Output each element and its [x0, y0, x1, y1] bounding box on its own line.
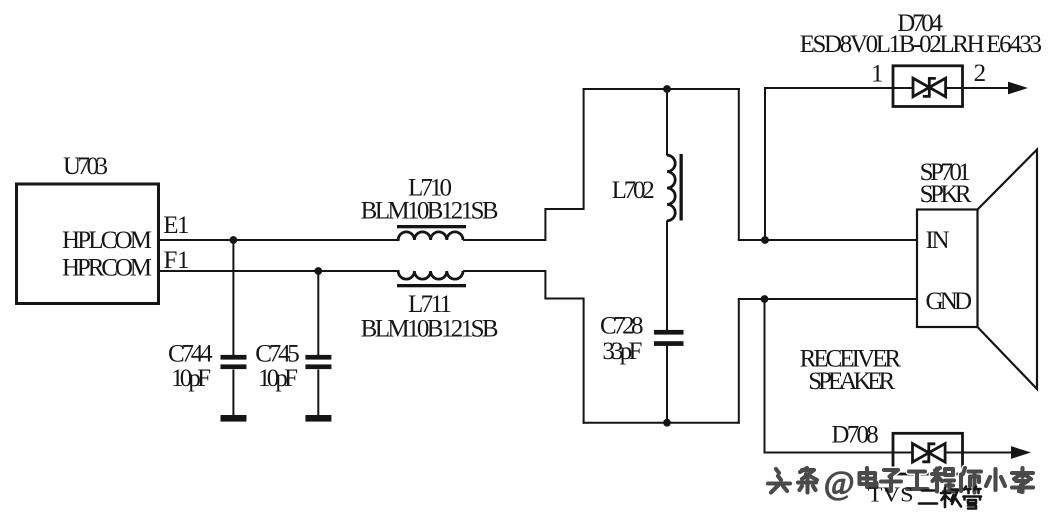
svg-text:F: F	[164, 247, 178, 274]
svg-text:C745: C745	[255, 341, 300, 368]
svg-text:10pF: 10pF	[171, 365, 211, 392]
svg-text:IN: IN	[926, 227, 950, 254]
svg-text:C744: C744	[168, 341, 213, 368]
svg-text:1: 1	[871, 61, 884, 88]
svg-text:33pF: 33pF	[602, 338, 642, 365]
svg-text:2: 2	[974, 60, 987, 87]
svg-text:L702: L702	[612, 177, 655, 204]
svg-text:SPKR: SPKR	[920, 181, 972, 208]
svg-text:GND: GND	[926, 288, 973, 315]
svg-text:HPRCOM: HPRCOM	[62, 255, 152, 282]
svg-text:10pF: 10pF	[258, 365, 298, 392]
svg-text:1: 1	[177, 212, 190, 239]
svg-text:U703: U703	[63, 153, 108, 180]
svg-text:C728: C728	[600, 313, 644, 340]
svg-text:1: 1	[177, 247, 190, 274]
svg-text:ESD8V0L1B-02LRH E6433: ESD8V0L1B-02LRH E6433	[800, 31, 1042, 58]
svg-text:D708: D708	[831, 421, 878, 448]
svg-text:@: @	[824, 466, 854, 502]
svg-text:HPLCOM: HPLCOM	[62, 227, 152, 254]
svg-text:SPEAKER: SPEAKER	[808, 368, 895, 395]
svg-text:L711: L711	[408, 291, 452, 318]
svg-text:BLM10B121SB: BLM10B121SB	[361, 197, 499, 224]
svg-text:TVS: TVS	[868, 483, 914, 507]
svg-text:BLM10B121SB: BLM10B121SB	[361, 316, 499, 343]
